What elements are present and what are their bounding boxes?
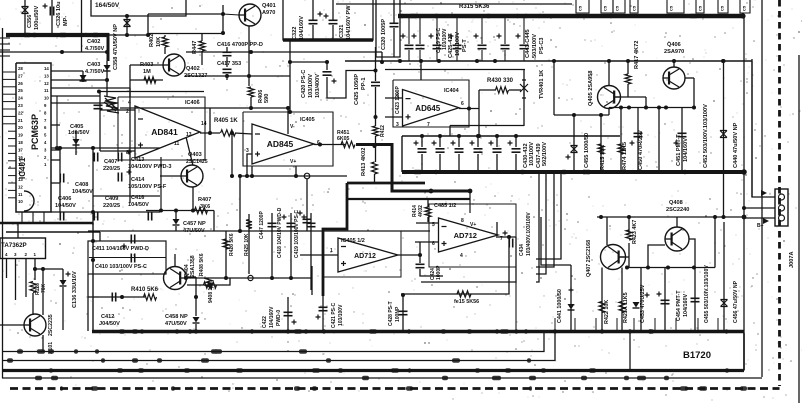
wire [87, 274, 89, 331]
wire [186, 51, 382, 53]
resistor R423 [626, 230, 632, 240]
svg-text:2SC2235: 2SC2235 [48, 314, 54, 336]
junction [91, 258, 95, 262]
polarity + [516, 34, 521, 39]
op-amp IC405a AD712 [338, 238, 398, 272]
capacitor C414 [118, 173, 121, 182]
wire [56, 96, 58, 148]
junction [437, 59, 441, 63]
svg-text:100NP: 100NP [395, 306, 401, 322]
left stub [0, 37, 10, 39]
svg-text:C421 PS-C: C421 PS-C [331, 302, 337, 328]
polarity + [474, 34, 479, 39]
wire [148, 13, 223, 15]
polarity + [127, 170, 132, 175]
wire [419, 255, 421, 263]
capacitor C408 [60, 174, 63, 183]
svg-text:Q406: Q406 [667, 42, 681, 48]
power bus [6, 33, 109, 37]
wire [608, 108, 610, 116]
junction [224, 276, 228, 280]
wire [129, 88, 131, 203]
junction [322, 329, 326, 333]
wire [300, 254, 338, 256]
wire Q405 collector [608, 61, 610, 86]
IC401 left pin stub 9 [8, 130, 16, 132]
wire feedback upper [99, 91, 204, 93]
svg-text:R407: R407 [198, 197, 211, 203]
svg-text:R408 5K6: R408 5K6 [199, 253, 205, 276]
svg-text:4K02: 4K02 [418, 205, 424, 217]
wire TA pin4 [6, 259, 8, 279]
wire bank2 cap [458, 136, 460, 147]
wire [420, 269, 443, 276]
junction [325, 60, 329, 64]
strip divider [654, 318, 656, 332]
polarity + [316, 315, 321, 320]
svg-text:10K: 10K [156, 37, 162, 47]
junction [374, 69, 378, 73]
svg-text:AD712: AD712 [354, 253, 376, 260]
capacitor [303, 219, 312, 222]
wire [99, 92, 101, 152]
capacitor C326 [50, 7, 53, 16]
capacitor C404 [94, 105, 103, 108]
wire R474 [620, 108, 622, 173]
junction [692, 106, 696, 110]
left edge bus [2, 28, 4, 335]
svg-text:11: 11 [174, 141, 180, 147]
svg-text:1M: 1M [143, 69, 151, 75]
wire [385, 69, 525, 71]
wire [195, 277, 197, 316]
wire [239, 176, 241, 231]
wire C421 [322, 296, 324, 331]
box divider [89, 257, 166, 259]
junction [33, 267, 37, 271]
junction [644, 106, 648, 110]
wire [427, 217, 429, 222]
main top bus [398, 14, 744, 18]
wire [160, 175, 181, 177]
connector pin [779, 215, 785, 221]
resistor R423A [619, 302, 625, 313]
resistor R451 [341, 141, 355, 147]
wire pin [51, 159, 60, 161]
wire [381, 52, 383, 62]
junction [741, 169, 747, 175]
polarity + [508, 141, 513, 146]
wire [108, 34, 148, 36]
svg-text:24: 24 [18, 96, 23, 101]
wire [226, 47, 228, 52]
strip divider [697, 318, 699, 332]
transistor X101 [24, 314, 46, 336]
svg-text:C447 1200P: C447 1200P [259, 211, 265, 239]
wire [24, 0, 26, 34]
svg-text:13: 13 [18, 177, 23, 182]
svg-text:Q407 2SC2168: Q407 2SC2168 [586, 240, 592, 277]
left stub [0, 49, 10, 51]
wire [92, 223, 94, 331]
resistor R410 [144, 294, 157, 300]
capacitor C320 [390, 23, 399, 26]
wire AD841 out [200, 132, 220, 134]
box C32x bottom bar [283, 38, 373, 41]
junction [507, 235, 511, 239]
wire cap bank1 [481, 18, 483, 44]
wire bank2 cap [515, 136, 517, 147]
wire [408, 50, 410, 61]
signal wire left [0, 222, 93, 225]
wire [541, 217, 571, 265]
svg-text:11: 11 [18, 192, 23, 197]
wire Q404 base [187, 278, 230, 285]
junction [245, 174, 249, 178]
capacitor C411 [131, 235, 134, 244]
polarity + [412, 34, 417, 39]
capacitor C417 [223, 69, 232, 72]
polarity + [43, 4, 48, 9]
junction [626, 59, 630, 63]
junction [418, 253, 422, 257]
wire TA pin1 [34, 259, 36, 281]
svg-text:104/50V: 104/50V [128, 202, 149, 208]
junction [58, 146, 62, 150]
junction [91, 239, 95, 243]
svg-text:C412: C412 [101, 314, 114, 320]
wire Q401 emitter [248, 26, 250, 86]
resistor R406b [204, 282, 217, 288]
junction [455, 14, 459, 18]
svg-text:7: 7 [427, 122, 430, 128]
resistor R412 [373, 126, 379, 136]
junction [476, 134, 480, 138]
box IC404 [393, 80, 469, 127]
wire R425 [248, 214, 250, 274]
junction [373, 144, 377, 148]
polarity + [127, 150, 132, 155]
wire [51, 0, 53, 34]
capacitor C451 [678, 133, 687, 136]
svg-text:503/100V: 503/100V [532, 34, 538, 58]
junction [722, 59, 726, 63]
svg-text:103/400V.103/100V: 103/400V.103/100V [526, 212, 532, 256]
svg-text:103/100V: 103/100V [529, 142, 535, 166]
junction [438, 134, 442, 138]
junction [60, 50, 64, 54]
bus line 3 thick [2, 369, 744, 372]
capacitor C407 [94, 153, 97, 162]
mid thick bus [402, 170, 744, 174]
svg-text:PCM63P: PCM63P [30, 114, 40, 150]
svg-text:R412: R412 [380, 125, 386, 137]
wire [287, 108, 289, 134]
junction [294, 174, 298, 178]
svg-text:IC405: IC405 [300, 117, 315, 123]
diode D10x [60, 280, 67, 286]
junction [146, 33, 150, 37]
wire cap bank1 [419, 18, 421, 44]
wire Q408 emitter [689, 239, 695, 268]
wire [504, 50, 506, 61]
wire [415, 241, 439, 243]
wire [332, 0, 334, 20]
svg-text:25: 25 [18, 88, 23, 93]
junction [105, 78, 109, 82]
transistor Q406 [663, 67, 685, 89]
junction [600, 329, 604, 333]
svg-text:R410 5K6: R410 5K6 [131, 287, 159, 293]
polarity + [645, 293, 650, 298]
wire [449, 126, 451, 137]
base rail [609, 107, 694, 109]
svg-text:C358 47U/50V NP: C358 47U/50V NP [113, 24, 119, 70]
wire TA pin2 [25, 259, 27, 298]
junction [286, 106, 290, 110]
wire [515, 154, 517, 172]
IC401 left pin stub 16 [8, 182, 16, 184]
wire [17, 223, 19, 238]
wire [195, 324, 197, 331]
component box top row 3 [613, 0, 625, 13]
wire Q408 collector [676, 217, 678, 227]
svg-text:IC406: IC406 [185, 100, 200, 106]
junction [627, 106, 631, 110]
junction [120, 295, 124, 299]
svg-text:C418 104/10V PWD-D: C418 104/10V PWD-D [277, 207, 283, 258]
capacitor C405 [73, 139, 80, 145]
junction [552, 59, 556, 63]
wire [421, 154, 423, 172]
wire Q403 collector [186, 137, 193, 166]
svg-text:47U/50V: 47U/50V [165, 321, 187, 327]
capacitor C356 [22, 7, 29, 14]
junction [627, 215, 631, 219]
svg-text:12: 12 [44, 81, 49, 86]
polarity + [324, 14, 329, 19]
svg-text:19: 19 [18, 133, 23, 138]
wire nest1 [536, 174, 539, 282]
wire [458, 154, 460, 172]
op-amp IC405b AD712 [439, 218, 499, 252]
junction [288, 60, 292, 64]
junction [288, 110, 292, 114]
rail x744 [743, 16, 745, 370]
svg-text:103/400V: 103/400V [315, 74, 321, 98]
svg-text:C422: C422 [262, 316, 268, 328]
polarity + [674, 141, 679, 146]
svg-text:IC401: IC401 [18, 157, 27, 179]
junction [286, 329, 290, 333]
wire C455 [573, 115, 575, 172]
wire to connector pin2 [744, 207, 775, 209]
wire [420, 61, 422, 80]
wire pin [51, 182, 60, 184]
svg-text:C321: C321 [339, 25, 345, 38]
svg-text:C457 NP: C457 NP [183, 221, 206, 227]
wire C428 [402, 295, 404, 331]
IC401 left pin stub 17 [8, 189, 16, 191]
strip divider [574, 318, 576, 332]
junction [91, 146, 95, 150]
capacitor C434 [509, 239, 512, 248]
wire [332, 25, 334, 40]
bus line 5 dashed [10, 387, 780, 390]
svg-text:C411 104/160V PWD-D: C411 104/160V PWD-D [92, 246, 149, 252]
capacitor C410 [131, 254, 134, 263]
IC401 pin numbers left [18, 66, 23, 204]
svg-text:C410 103/100V PS-C: C410 103/100V PS-C [95, 264, 147, 270]
svg-text:AD845: AD845 [267, 139, 294, 149]
IC401 left pin stub 11 [8, 145, 16, 147]
svg-text:C428 PS-T: C428 PS-T [388, 301, 394, 326]
svg-text:C5: C5 [578, 5, 583, 11]
wire AD645 in- [385, 97, 402, 99]
wire to connector pin3 [744, 217, 775, 219]
wire [175, 211, 177, 220]
left stub [0, 55, 10, 57]
power bus drop [107, 33, 110, 61]
svg-text:2SA970: 2SA970 [664, 49, 684, 55]
wire [129, 65, 131, 97]
polarity + [429, 34, 434, 39]
svg-text:A970: A970 [262, 10, 275, 16]
wire [160, 157, 162, 211]
bus line 2 [2, 333, 555, 361]
wire [439, 154, 441, 172]
capacitor C455b [691, 298, 700, 301]
resistor R417 [625, 74, 631, 84]
IC401 left pin stub 14 [8, 167, 16, 169]
IC401 left pin stub 10 [8, 138, 16, 140]
wire [75, 130, 77, 155]
connector J007 body [775, 189, 788, 226]
box IC406 [118, 97, 205, 160]
junction [91, 210, 95, 214]
junction [475, 59, 479, 63]
wire [62, 269, 64, 280]
junction [664, 106, 668, 110]
wire [35, 268, 63, 270]
transistor Q408 [665, 227, 689, 251]
wire [222, 5, 224, 33]
svg-text:4.7/50V: 4.7/50V [85, 46, 105, 52]
capacitor C455 [571, 146, 578, 153]
svg-text:R426 5K6: R426 5K6 [229, 233, 235, 256]
wire [130, 64, 163, 66]
svg-text:C322: C322 [292, 27, 298, 40]
bus bottom of main box [92, 330, 744, 334]
svg-text:C356: C356 [27, 15, 33, 28]
svg-text:R423 4K7: R423 4K7 [632, 220, 638, 244]
capacitor C322 [309, 20, 318, 23]
IC401 left pin wire 3 [3, 86, 17, 88]
polarity + [489, 141, 494, 146]
junction [524, 329, 528, 333]
wire [289, 62, 291, 112]
IC401 left pin wire 1 [3, 71, 17, 73]
wire top of strip [88, 230, 430, 232]
svg-text:104/160V PW: 104/160V PW [346, 5, 352, 40]
junction [380, 60, 384, 64]
resistor R409 [206, 278, 212, 288]
feedback wire inner [401, 237, 509, 294]
capacitor C406 [60, 212, 63, 221]
svg-text:Q402: Q402 [186, 66, 200, 72]
wire Q405 base [615, 96, 646, 98]
svg-text:21: 21 [18, 118, 23, 123]
svg-text:70K: 70K [41, 283, 47, 293]
diode C441 [568, 304, 575, 310]
svg-text:22: 22 [18, 110, 23, 115]
wire C418 [290, 213, 292, 278]
junction [41, 267, 45, 271]
wire [477, 154, 479, 172]
polarity + [470, 141, 475, 146]
wire [213, 211, 215, 232]
junction [628, 329, 632, 333]
dashed rail x780 [778, 0, 781, 386]
wire [51, 79, 108, 81]
wire [148, 33, 223, 35]
svg-text:12: 12 [18, 184, 23, 189]
wire [32, 293, 34, 315]
wire C440 [723, 61, 725, 217]
resistor R405 [221, 130, 236, 136]
junction [238, 174, 242, 178]
junction [225, 74, 229, 78]
wire bank2 cap [496, 136, 498, 147]
wire C441 [570, 265, 572, 331]
junction [194, 295, 198, 299]
svg-text:C456 47u/50V NP: C456 47u/50V NP [733, 280, 739, 323]
junction [742, 215, 747, 220]
wire [481, 50, 483, 61]
junction [398, 59, 402, 63]
transistor Q401 [239, 4, 261, 26]
svg-text:100u/50V: 100u/50V [34, 5, 40, 30]
wire [62, 287, 64, 330]
bus line 4 [2, 377, 762, 379]
svg-text:104/100V PWD-3: 104/100V PWD-3 [128, 164, 172, 170]
wire [147, 14, 149, 35]
polarity + [449, 34, 454, 39]
svg-text:8: 8 [461, 218, 464, 224]
junction [174, 209, 178, 213]
junction [619, 106, 623, 110]
bank2 top rail [402, 135, 620, 137]
svg-text:18: 18 [18, 140, 23, 145]
wire to connector [751, 61, 753, 197]
svg-text:PP-1: PP-1 [361, 78, 367, 90]
svg-text:C440 47u/50V NP: C440 47u/50V NP [733, 122, 739, 168]
capacitor bank1 [478, 45, 487, 48]
capacitor C402 [104, 65, 111, 71]
junction [514, 134, 518, 138]
capacitor C403 [80, 75, 87, 81]
junction [429, 189, 434, 194]
box IC405 [243, 112, 333, 166]
svg-text:J007A: J007A [789, 252, 795, 268]
svg-text:103/100V: 103/100V [338, 304, 344, 326]
svg-text:fe15 5K56: fe15 5K56 [454, 299, 479, 305]
wire [627, 84, 629, 97]
svg-text:C454 PMT-T: C454 PMT-T [676, 290, 682, 321]
svg-text:104/160V: 104/160V [269, 306, 275, 328]
polarity + [414, 141, 419, 146]
svg-text:C425-427: C425-427 [448, 33, 454, 58]
